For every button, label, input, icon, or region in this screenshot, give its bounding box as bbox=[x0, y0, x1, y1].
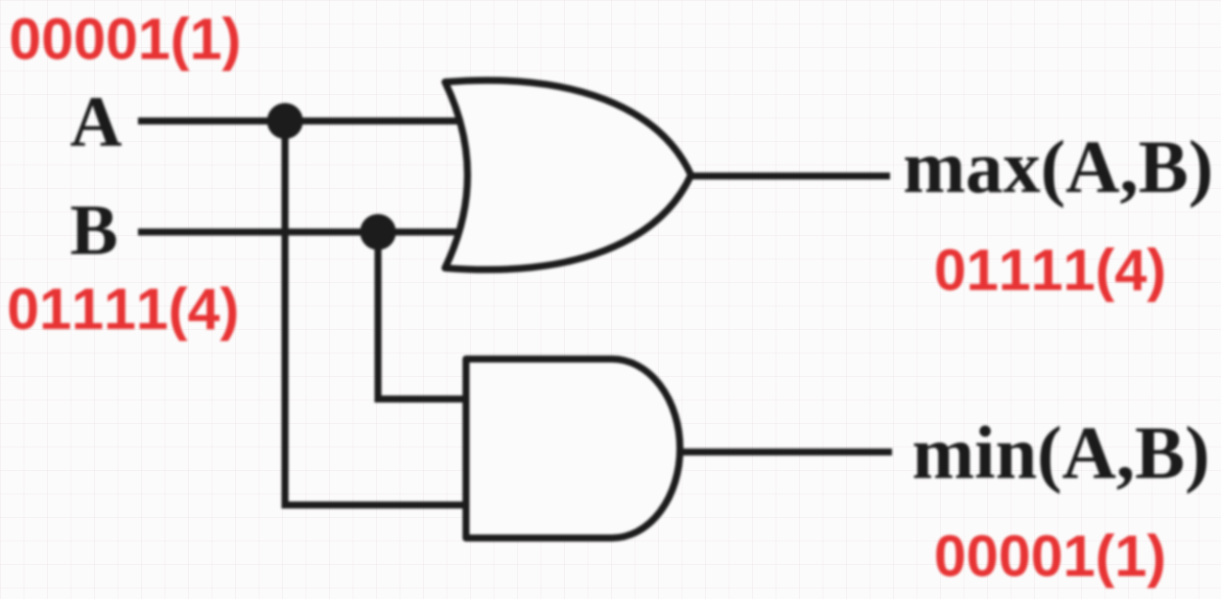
svg-text:max(A,B): max(A,B) bbox=[903, 126, 1213, 209]
junction dot on A wire bbox=[267, 103, 303, 139]
wire from B junction down to AND upper input bbox=[378, 232, 468, 399]
OR output wire bbox=[691, 173, 890, 180]
svg-text:min(A,B): min(A,B) bbox=[912, 412, 1210, 495]
wire B horizontal bbox=[138, 229, 465, 236]
wire A horizontal bbox=[138, 118, 465, 125]
AND gate U2 bbox=[466, 359, 680, 538]
AND output wire bbox=[678, 449, 892, 456]
OR gate U1 bbox=[445, 80, 691, 269]
svg-text:01111(4): 01111(4) bbox=[7, 277, 239, 342]
junction dot on B wire bbox=[360, 214, 396, 250]
svg-text:01111(4): 01111(4) bbox=[934, 238, 1166, 303]
wire from A junction down to AND lower input bbox=[285, 121, 468, 505]
svg-text:B: B bbox=[70, 190, 118, 270]
svg-text:00001(1): 00001(1) bbox=[934, 524, 1166, 589]
svg-text:00001(1): 00001(1) bbox=[9, 7, 241, 72]
svg-text:A: A bbox=[70, 82, 122, 162]
